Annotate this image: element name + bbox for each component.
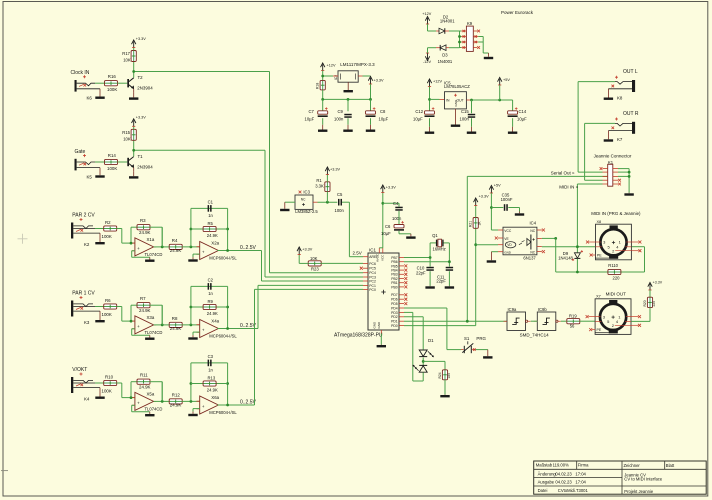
svg-text:+: + xyxy=(137,324,140,329)
svg-text:100n: 100n xyxy=(460,117,470,122)
svg-text:6N137: 6N137 xyxy=(523,256,536,261)
svg-text:PC0: PC0 xyxy=(369,288,376,292)
svg-text:24.9K: 24.9K xyxy=(207,233,218,238)
svg-text:GND: GND xyxy=(377,321,381,329)
svg-text:VD: VD xyxy=(507,243,512,247)
svg-text:X4a: X4a xyxy=(211,319,219,324)
svg-text:04.02.23: 04.02.23 xyxy=(555,480,572,485)
svg-text:R9: R9 xyxy=(208,299,214,304)
svg-text:10µF: 10µF xyxy=(305,117,315,122)
svg-text:100K: 100K xyxy=(107,166,117,171)
svg-text:16MHz: 16MHz xyxy=(433,246,446,251)
svg-text:56: 56 xyxy=(570,324,575,329)
svg-text:22pF: 22pF xyxy=(436,279,446,284)
svg-text:MCP6004-I/SL: MCP6004-I/SL xyxy=(209,333,237,338)
svg-text:PD4: PD4 xyxy=(391,306,398,310)
svg-text:AVCC: AVCC xyxy=(376,253,380,262)
svg-text:R4: R4 xyxy=(172,238,178,243)
svg-text:MIDI IN (PRG & Jeannie): MIDI IN (PRG & Jeannie) xyxy=(591,211,641,216)
svg-text:R5: R5 xyxy=(208,221,214,226)
svg-text:K8: K8 xyxy=(617,95,623,100)
svg-text:17:04: 17:04 xyxy=(575,471,586,476)
svg-text:K6: K6 xyxy=(87,96,93,101)
svg-text:T2: T2 xyxy=(138,75,144,80)
svg-text:R2: R2 xyxy=(105,220,111,225)
svg-text:X1a: X1a xyxy=(147,237,155,242)
svg-text:+3.3V: +3.3V xyxy=(302,248,312,252)
svg-text:+: + xyxy=(137,246,140,251)
svg-text:R1: R1 xyxy=(316,178,322,183)
svg-text:10K: 10K xyxy=(310,256,318,261)
svg-text:24.9K: 24.9K xyxy=(139,384,151,389)
svg-text:C5: C5 xyxy=(337,192,343,197)
svg-text:LM78L05ACZ: LM78L05ACZ xyxy=(444,84,470,89)
svg-text:D1: D1 xyxy=(428,338,434,343)
svg-text:24.9K: 24.9K xyxy=(207,311,218,316)
svg-text:PE: PE xyxy=(597,328,602,332)
svg-text:K4: K4 xyxy=(84,397,90,402)
svg-text:+: + xyxy=(202,404,205,409)
svg-text:R19: R19 xyxy=(569,314,577,319)
svg-text:100K: 100K xyxy=(102,234,112,239)
svg-text:10µF: 10µF xyxy=(517,117,527,122)
svg-text:+3.3V: +3.3V xyxy=(479,195,489,199)
svg-text:Ausgabe: Ausgabe xyxy=(538,480,555,485)
svg-text:IC9a: IC9a xyxy=(508,307,518,312)
svg-text:R6: R6 xyxy=(105,298,111,303)
svg-text:+3.3V: +3.3V xyxy=(330,168,340,172)
svg-text:K2: K2 xyxy=(84,242,90,247)
svg-text:GND: GND xyxy=(373,321,377,329)
svg-text:NC: NC xyxy=(530,229,535,233)
svg-text:100n: 100n xyxy=(335,208,345,213)
svg-text:IC9b: IC9b xyxy=(538,307,548,312)
svg-text:V/OKT: V/OKT xyxy=(72,367,87,373)
svg-text:GND: GND xyxy=(504,251,512,255)
svg-text:K7: K7 xyxy=(617,137,623,142)
svg-text:24.9K: 24.9K xyxy=(170,248,182,253)
svg-text:ATmega168/328P-PU: ATmega168/328P-PU xyxy=(334,332,383,338)
svg-text:Jeannie Connector: Jeannie Connector xyxy=(594,154,632,159)
svg-text:CV to MIDI Interface: CV to MIDI Interface xyxy=(624,476,663,481)
svg-text:PD6: PD6 xyxy=(391,298,398,302)
svg-text:R20: R20 xyxy=(643,300,647,306)
svg-text:PD0: PD0 xyxy=(391,324,398,328)
svg-text:Clock IN: Clock IN xyxy=(71,70,90,76)
svg-text:NC: NC xyxy=(301,198,306,202)
svg-text:Gate: Gate xyxy=(75,149,86,155)
svg-text:+5V: +5V xyxy=(494,184,501,188)
svg-text:+3.3V: +3.3V xyxy=(136,116,146,120)
svg-text:R17: R17 xyxy=(122,51,130,56)
svg-text:C9: C9 xyxy=(338,109,344,114)
svg-text:MIDI IN »: MIDI IN » xyxy=(559,184,578,189)
svg-text:TL074CD: TL074CD xyxy=(145,252,163,257)
svg-text:1n: 1n xyxy=(208,367,213,372)
svg-text:X3a: X3a xyxy=(147,315,155,320)
svg-text:C15: C15 xyxy=(461,109,469,114)
svg-text:Q1: Q1 xyxy=(432,233,438,238)
svg-text:X8: X8 xyxy=(597,220,602,224)
svg-text:K3: K3 xyxy=(84,320,90,325)
svg-text:10µF: 10µF xyxy=(381,231,391,236)
svg-text:R110: R110 xyxy=(608,263,618,268)
svg-text:C12: C12 xyxy=(415,109,423,114)
svg-text:10µF: 10µF xyxy=(379,117,389,122)
svg-text:100n: 100n xyxy=(392,216,402,221)
svg-text:C6: C6 xyxy=(385,224,391,229)
svg-text:220: 220 xyxy=(652,301,656,307)
svg-text:100K: 100K xyxy=(102,312,112,317)
svg-text:R24: R24 xyxy=(438,372,442,378)
svg-text:GND: GND xyxy=(454,99,458,107)
svg-text:+12V: +12V xyxy=(422,12,431,16)
svg-text:TL074CD: TL074CD xyxy=(145,330,163,335)
svg-text:K9: K9 xyxy=(467,21,473,26)
svg-text:24.9K: 24.9K xyxy=(170,402,182,407)
svg-text:X5a: X5a xyxy=(147,392,155,397)
svg-text:1n: 1n xyxy=(208,291,213,296)
svg-text:OUT L: OUT L xyxy=(623,69,638,75)
svg-text:IC1: IC1 xyxy=(369,248,377,253)
svg-text:1N4001: 1N4001 xyxy=(440,18,455,23)
svg-text:+: + xyxy=(137,401,140,406)
svg-text:24.9K: 24.9K xyxy=(139,230,151,235)
svg-text:180: 180 xyxy=(447,373,451,379)
svg-text:CVtoMidi.T3001: CVtoMidi.T3001 xyxy=(558,488,589,493)
svg-text:Änderung: Änderung xyxy=(538,471,557,476)
svg-text:S1: S1 xyxy=(464,336,470,341)
svg-text:C4: C4 xyxy=(393,201,399,206)
svg-text:+: + xyxy=(202,250,205,255)
svg-text:PD5: PD5 xyxy=(391,302,398,306)
svg-text:C8: C8 xyxy=(380,109,386,114)
svg-text:Maßstab: Maßstab xyxy=(536,463,553,468)
svg-text:+3.3V: +3.3V xyxy=(653,281,663,285)
svg-text:+3.3V: +3.3V xyxy=(386,186,396,190)
svg-text:T1: T1 xyxy=(138,154,144,159)
svg-text:C1: C1 xyxy=(208,200,214,205)
svg-text:Blatt: Blatt xyxy=(666,463,675,468)
svg-text:R23: R23 xyxy=(311,267,319,272)
svg-text:04.02.23: 04.02.23 xyxy=(555,471,572,476)
svg-text:NC: NC xyxy=(530,250,535,254)
svg-text:PAR 2 CV: PAR 2 CV xyxy=(72,213,95,219)
svg-text:X7: X7 xyxy=(596,294,601,298)
svg-text:C14: C14 xyxy=(519,109,527,114)
svg-text:IN: IN xyxy=(446,99,450,103)
svg-text:220: 220 xyxy=(613,276,621,281)
svg-text:K5: K5 xyxy=(87,174,93,179)
svg-text:Power Eurorack: Power Eurorack xyxy=(501,10,534,15)
svg-text:+3.3V: +3.3V xyxy=(374,79,384,83)
svg-text:VCC: VCC xyxy=(504,229,512,233)
svg-text:2N3904: 2N3904 xyxy=(137,164,153,169)
svg-text:PD3: PD3 xyxy=(391,311,398,315)
svg-text:Datei: Datei xyxy=(538,488,548,493)
svg-text:R16: R16 xyxy=(108,74,117,79)
svg-text:22pF: 22pF xyxy=(416,270,426,275)
svg-text:R10: R10 xyxy=(105,375,114,380)
svg-text:+12V: +12V xyxy=(433,80,442,84)
svg-text:2N3904: 2N3904 xyxy=(137,86,153,91)
svg-text:C2: C2 xyxy=(208,278,214,283)
svg-text:3.3K: 3.3K xyxy=(315,183,324,188)
svg-text:0..2.5V: 0..2.5V xyxy=(240,245,257,251)
svg-text:LM1117IMPX-3.3: LM1117IMPX-3.3 xyxy=(340,62,375,67)
svg-text:PE: PE xyxy=(597,254,602,258)
svg-text:+12V: +12V xyxy=(327,64,336,68)
svg-text:1n: 1n xyxy=(208,213,213,218)
svg-text:R14: R14 xyxy=(108,153,117,158)
svg-text:TL074CD: TL074CD xyxy=(145,406,163,411)
svg-text:-12V: -12V xyxy=(423,60,431,64)
svg-text:100K: 100K xyxy=(102,389,112,394)
svg-text:17:04: 17:04 xyxy=(575,480,586,485)
svg-text:+5V: +5V xyxy=(503,78,510,82)
svg-text:24.9K: 24.9K xyxy=(207,387,218,392)
svg-text:MCP6004-I/SL: MCP6004-I/SL xyxy=(209,255,237,260)
svg-text:1N4148: 1N4148 xyxy=(558,255,573,260)
svg-text:X2a: X2a xyxy=(211,241,219,246)
svg-text:SMD_74HC14: SMD_74HC14 xyxy=(520,333,550,338)
svg-text:+: + xyxy=(202,328,205,333)
svg-text:Projekt Jeannie: Projekt Jeannie xyxy=(624,489,654,494)
svg-text:Zeichner: Zeichner xyxy=(624,463,641,468)
svg-text:10K: 10K xyxy=(123,136,131,141)
svg-text:PB0: PB0 xyxy=(391,285,398,289)
svg-text:10K: 10K xyxy=(123,58,131,63)
svg-text:2.5V: 2.5V xyxy=(353,251,362,256)
svg-text:OUT R: OUT R xyxy=(623,111,639,117)
svg-text:PD7: PD7 xyxy=(391,293,398,297)
svg-text:PRG: PRG xyxy=(476,336,486,341)
svg-text:24.9K: 24.9K xyxy=(170,326,182,331)
svg-text:MIDI OUT: MIDI OUT xyxy=(606,292,626,297)
svg-text:IC3: IC3 xyxy=(303,190,310,195)
svg-text:+3.3V: +3.3V xyxy=(136,37,146,41)
svg-text:R11: R11 xyxy=(140,373,148,378)
svg-text:C3: C3 xyxy=(208,354,214,359)
svg-text:X6a: X6a xyxy=(211,395,219,400)
svg-text:PAR 1 CV: PAR 1 CV xyxy=(72,291,95,297)
svg-text:R7: R7 xyxy=(140,296,146,301)
svg-text:R21: R21 xyxy=(469,221,473,227)
svg-text:100K: 100K xyxy=(107,87,117,92)
svg-text:Firma: Firma xyxy=(578,462,589,467)
svg-text:R15: R15 xyxy=(122,130,130,135)
svg-text:10µF: 10µF xyxy=(413,117,423,122)
svg-text:Serial Out »: Serial Out » xyxy=(551,171,575,176)
svg-text:R13: R13 xyxy=(208,375,216,380)
svg-text:24.9K: 24.9K xyxy=(139,308,151,313)
svg-text:R3: R3 xyxy=(140,218,146,223)
svg-text:IC4: IC4 xyxy=(530,221,537,226)
svg-text:119.00%: 119.00% xyxy=(553,463,569,468)
svg-text:D3: D3 xyxy=(442,53,448,58)
svg-text:100n: 100n xyxy=(334,117,344,122)
svg-text:VCC: VCC xyxy=(380,254,384,261)
svg-text:PD2: PD2 xyxy=(391,315,398,319)
svg-text:IC2: IC2 xyxy=(334,75,338,80)
svg-text:1N4001: 1N4001 xyxy=(438,59,453,64)
svg-text:PD1: PD1 xyxy=(391,320,398,324)
svg-text:LM385Z-2.5: LM385Z-2.5 xyxy=(295,209,318,214)
svg-text:PC2: PC2 xyxy=(369,279,376,283)
svg-text:R12: R12 xyxy=(172,393,181,398)
svg-text:R8: R8 xyxy=(172,316,178,321)
svg-text:R18: R18 xyxy=(316,83,320,89)
svg-text:100nF: 100nF xyxy=(501,197,513,202)
svg-text:MCP6004-I/SL: MCP6004-I/SL xyxy=(209,410,237,415)
svg-text:C7: C7 xyxy=(309,109,315,114)
svg-text:PC5: PC5 xyxy=(369,267,376,271)
